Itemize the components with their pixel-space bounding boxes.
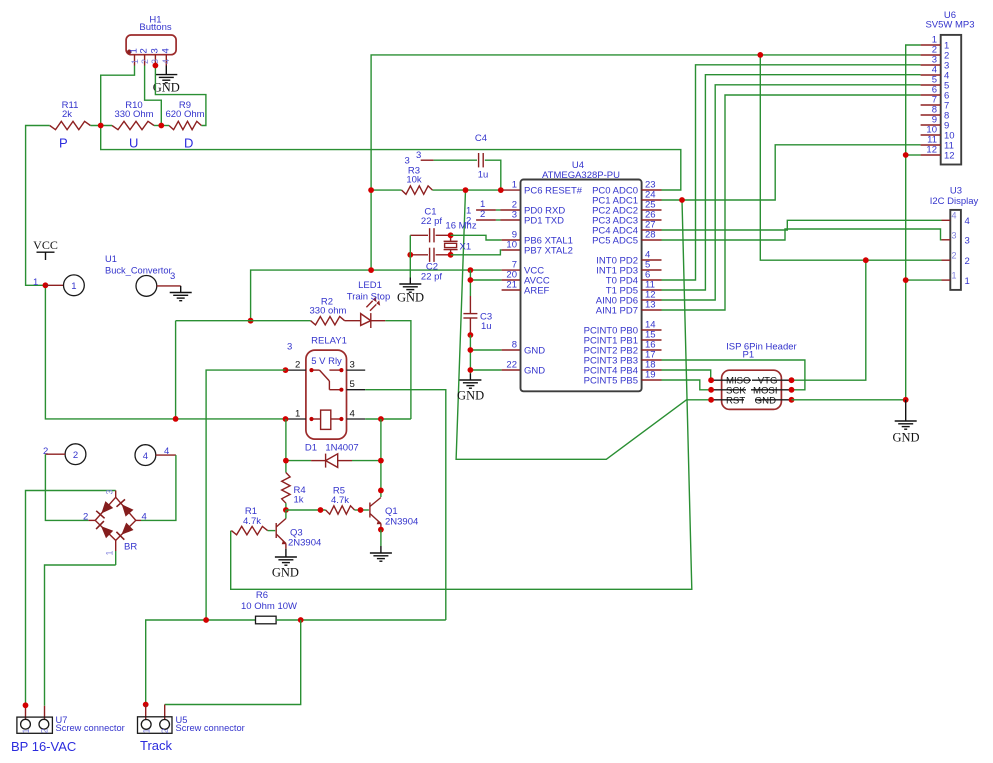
node U7 pin1 top <box>23 702 29 708</box>
node R11/R10 junction <box>98 123 104 129</box>
svg-text:Q1: Q1 <box>385 506 398 517</box>
wire C4 right down to pin1 line <box>485 160 501 190</box>
svg-text:RELAY1: RELAY1 <box>311 336 347 347</box>
U4 pin1 stub <box>501 189 521 191</box>
node top rail/x760.3 <box>757 52 763 58</box>
wire relay pin2 to R6 line <box>206 370 285 620</box>
svg-text:VCC: VCC <box>33 238 58 252</box>
wire C1/C2 ground leg <box>409 235 411 277</box>
svg-text:LED1: LED1 <box>358 280 382 291</box>
wire ISP GND to ground rail <box>792 399 906 401</box>
svg-text:1N4007: 1N4007 <box>325 443 358 454</box>
svg-text:8: 8 <box>512 340 517 351</box>
svg-text:BR: BR <box>124 542 137 553</box>
transistor Q1 2N3904 <box>370 498 418 530</box>
wire R6 line left to U5 pin1 <box>146 620 256 705</box>
wire pin27 to U3 pin4 <box>662 220 942 230</box>
svg-text:U3: U3 <box>950 186 962 197</box>
node pin20/AVCC <box>468 277 474 283</box>
svg-text:Track: Track <box>140 738 173 753</box>
wire relay pin5 to R6 right end <box>365 390 446 620</box>
svg-text:1: 1 <box>71 281 76 292</box>
svg-text:4.7k: 4.7k <box>331 495 349 506</box>
svg-text:PC6 RESET#: PC6 RESET# <box>524 185 583 196</box>
svg-text:1: 1 <box>21 728 31 733</box>
wire P button: H1 pin1 to R11/R10 junction, down and long run to U4 pin23 <box>101 66 681 191</box>
svg-text:330 Ohm: 330 Ohm <box>114 109 153 120</box>
LED LED1 Train Stop <box>345 280 391 328</box>
svg-text:Screw connector: Screw connector <box>176 723 245 733</box>
svg-text:2: 2 <box>83 512 88 523</box>
wire R3 left to VCC vertical <box>371 189 402 191</box>
svg-text:X1: X1 <box>460 242 472 253</box>
diode bottom-right (points to bottom corner) <box>121 523 133 535</box>
U3 inside pale numbers <box>952 211 957 281</box>
net stub 1 to U4 pin2 RXD <box>466 199 521 217</box>
svg-text:1: 1 <box>105 550 115 555</box>
wire pin24 PC1 to U6 pin11 <box>662 145 921 200</box>
wire pin18 MISO to ISP <box>662 370 711 380</box>
node D1 anode <box>283 458 289 464</box>
svg-text:4: 4 <box>952 211 957 221</box>
node ISP MISO <box>708 377 714 383</box>
svg-text:330 ohm: 330 ohm <box>310 306 347 317</box>
capacitor C2 22pf <box>410 248 450 283</box>
wire pin6 T0 to U6 pin3 <box>662 65 921 280</box>
node XTAL1/C1 <box>448 232 454 238</box>
svg-text:2: 2 <box>952 251 957 261</box>
wire resistor row joins <box>90 125 112 127</box>
node U3pin2row/x865.8 <box>863 257 869 263</box>
wire track to U5 pin2 <box>165 620 301 705</box>
node relay pin4/D1 <box>378 416 384 422</box>
svg-text:2: 2 <box>139 48 150 53</box>
svg-text:D: D <box>184 136 193 151</box>
node D1 cathode <box>378 458 384 464</box>
wire U3 pin1 to gnd rail <box>906 279 942 281</box>
node R5 right <box>358 507 364 513</box>
svg-text:2N3904: 2N3904 <box>288 538 321 549</box>
svg-text:GND: GND <box>397 291 424 305</box>
svg-text:3: 3 <box>287 342 292 353</box>
svg-text:AIN1 PD7: AIN1 PD7 <box>596 305 638 316</box>
svg-text:P: P <box>59 136 68 151</box>
wire VTG branch down x865.8 to ISP VTG <box>792 260 866 380</box>
node ISP MOSI <box>789 387 795 393</box>
svg-text:GND: GND <box>272 566 299 580</box>
wire XTAL1 to U4 pin9 <box>451 235 502 240</box>
U4 right pin stubs <box>642 190 662 380</box>
node R6 line/relay pin2 drop <box>203 617 209 623</box>
svg-text:4: 4 <box>143 451 148 462</box>
U4 pin9 stub <box>502 239 521 241</box>
svg-text:1: 1 <box>33 277 38 288</box>
wire Q3 collector up to node <box>285 510 287 519</box>
svg-text:3: 3 <box>952 231 957 241</box>
svg-text:R6: R6 <box>256 590 268 601</box>
wire pin12 AIN0 to U6 pin5 <box>662 85 921 300</box>
svg-text:19: 19 <box>645 370 656 381</box>
svg-text:BP 16-VAC: BP 16-VAC <box>11 739 76 754</box>
wire VCC branch at x250.6 up to VCC row y270 <box>251 270 471 321</box>
wire relay pin1 down to D1 <box>285 419 287 473</box>
diode D1 1N4007 <box>286 443 381 468</box>
op-amp U4 body <box>521 160 642 391</box>
wire LED cathode down to relay pin4 line <box>385 321 411 419</box>
node ISP GND <box>789 397 795 403</box>
node pin24 slant junction <box>679 197 685 203</box>
node R10/R9 junction <box>158 123 164 129</box>
svg-text:3: 3 <box>170 271 175 282</box>
svg-text:1k: 1k <box>294 495 304 506</box>
capacitor C1 22pf <box>410 207 450 243</box>
svg-text:ATMEGA328P-PU: ATMEGA328P-PU <box>542 170 620 181</box>
svg-text:PD1 TXD: PD1 TXD <box>524 215 564 226</box>
resistor R6 10 Ohm 10W <box>241 590 297 624</box>
wire R6 right to relay pin5 drop <box>276 619 446 621</box>
screw connector U7 BP 16-VAC <box>11 705 125 754</box>
U4 left pin numbers <box>506 180 517 371</box>
wire VCC branch down x760.3 to U3 pin2 row <box>760 55 941 260</box>
svg-text:2k: 2k <box>62 109 72 120</box>
U3 outside numbers <box>965 216 970 287</box>
svg-text:2: 2 <box>160 728 170 733</box>
wire R1 right to Q3 base <box>268 530 276 532</box>
svg-text:12: 12 <box>944 151 955 162</box>
node relay pin2 <box>283 367 289 373</box>
svg-text:2N3904: 2N3904 <box>385 517 418 528</box>
node C2 left / gnd leg <box>407 252 413 258</box>
relay pin5 line <box>347 389 366 391</box>
node C3 bottom <box>468 332 474 338</box>
relay pin4 line <box>347 418 366 420</box>
wire U button: H1 pin2 to R10/R9 junction <box>145 66 162 126</box>
resistor R4 1k (vertical) <box>282 473 306 506</box>
wire slant PC1 down to R1 base line <box>231 200 692 589</box>
svg-text:I2C Display: I2C Display <box>930 196 979 207</box>
H1 pin 1 stub <box>134 55 136 66</box>
node gnd rail/ISP <box>903 397 909 403</box>
relay switch blade and contacts <box>309 368 343 392</box>
ground under H1 pin 4 <box>153 66 180 95</box>
wire D button: H1 pin3 to R9 right <box>155 66 206 126</box>
node pin22 <box>468 367 474 373</box>
wire pin13 AIN1 to U6 pin6 <box>662 95 921 310</box>
svg-text:Buck_Convertor: Buck_Convertor <box>105 266 172 276</box>
svg-text:12: 12 <box>926 145 937 156</box>
wire AVCC branch down <box>469 270 471 296</box>
svg-text:GND: GND <box>524 345 545 356</box>
svg-text:3: 3 <box>416 150 421 161</box>
svg-text:3: 3 <box>350 360 355 371</box>
svg-text:1: 1 <box>130 59 140 64</box>
node R4/Q3 collector/R5 <box>283 507 289 513</box>
node U3 pin1 junction <box>903 277 909 283</box>
relay pin2 line <box>286 369 306 371</box>
wire RST slant down to ISP <box>456 190 711 459</box>
wire pin28 to U3 pin3 <box>662 229 942 240</box>
node R5 left <box>318 507 324 513</box>
svg-text:1u: 1u <box>478 170 489 181</box>
screw connector U5 Track <box>138 705 245 754</box>
svg-text:2: 2 <box>480 209 485 220</box>
node ISP VTG <box>789 377 795 383</box>
svg-text:GND: GND <box>457 389 484 403</box>
svg-text:22 pf: 22 pf <box>421 272 442 283</box>
U1 pin4 circle <box>135 445 176 466</box>
diode top-left (points to left corner) <box>101 501 113 513</box>
node U6 pin12 junction <box>903 152 909 158</box>
svg-text:10k: 10k <box>406 175 422 186</box>
H1 pin 2 stub <box>144 55 146 66</box>
node C4/pin1 line <box>498 187 504 193</box>
U4 pin20 stub AVCC <box>470 279 501 281</box>
svg-text:GND: GND <box>892 431 919 445</box>
wire U6 pin1 to gnd rail <box>906 45 921 400</box>
wire gnd leg pin8/pin22 <box>469 335 471 374</box>
U4 pin10 stub <box>502 249 521 251</box>
wire RESET net R3 right to U4 pin1 <box>433 189 502 191</box>
relay pin3 line <box>347 369 366 371</box>
svg-text:5: 5 <box>350 379 355 390</box>
svg-text:4: 4 <box>161 59 171 64</box>
wire R4 bottom to node <box>285 503 287 510</box>
svg-text:Screw connector: Screw connector <box>56 723 125 733</box>
svg-text:C4: C4 <box>475 133 487 144</box>
wire BR pin1 to U7 pin2 <box>45 565 116 706</box>
node RST slant/pin1 line <box>463 187 469 193</box>
svg-text:10 Ohm 10W: 10 Ohm 10W <box>241 601 297 612</box>
U6 pin stubs 1-12 <box>921 45 941 155</box>
resistor R10 330 Ohm <box>112 100 154 130</box>
svg-text:2: 2 <box>140 59 150 64</box>
svg-text:13: 13 <box>645 300 656 311</box>
resistor R1 4.7k <box>231 506 267 535</box>
svg-text:22 pf: 22 pf <box>421 216 442 227</box>
svg-text:28: 28 <box>645 230 656 241</box>
svg-text:2: 2 <box>73 450 78 461</box>
relay coil <box>309 410 343 429</box>
wire VCC branch up at x175.6 to R2 line <box>175 321 177 419</box>
svg-text:U: U <box>129 136 138 151</box>
transistor Q3 2N3904 <box>276 519 321 549</box>
svg-text:2: 2 <box>965 256 970 267</box>
U4 pin22 stub GND <box>470 369 501 371</box>
U1 pin1 circle <box>33 275 84 296</box>
U4 left pin names <box>524 185 583 376</box>
U4 right pin names <box>584 185 638 386</box>
svg-text:GND: GND <box>755 395 776 406</box>
node relay pin1/VCC <box>283 416 289 422</box>
svg-text:3: 3 <box>512 210 517 221</box>
U6 inside pin names <box>944 41 955 162</box>
svg-text:4: 4 <box>142 512 147 523</box>
node R6 right/track drop <box>298 617 304 623</box>
svg-text:P1: P1 <box>742 350 754 361</box>
svg-text:4.7k: 4.7k <box>243 516 261 527</box>
svg-text:1: 1 <box>965 276 970 287</box>
node R2line/x250.6 <box>248 318 254 324</box>
ground under Q3 <box>272 549 299 580</box>
wire R11 left to VCC rail <box>26 126 50 286</box>
svg-text:1: 1 <box>512 180 517 191</box>
svg-text:3: 3 <box>149 48 160 53</box>
svg-text:4: 4 <box>965 216 970 227</box>
crystal X1 16 Mhz <box>444 221 477 255</box>
resistor R11 2k <box>50 100 91 130</box>
svg-text:5 V Rly: 5 V Rly <box>311 356 342 367</box>
capacitor C3 1u <box>463 296 492 335</box>
resistor R9 620 Ohm <box>165 100 204 130</box>
node U5 pin1 top <box>143 702 149 708</box>
relay pin1 line <box>286 418 306 420</box>
svg-text:PCINT5 PB5: PCINT5 PB5 <box>584 375 638 386</box>
resistor R5 4.7k <box>326 486 355 515</box>
svg-text:GND: GND <box>524 365 545 376</box>
svg-text:D1: D1 <box>305 443 317 454</box>
node Q1 emitter <box>378 527 384 533</box>
resistor R3 10k <box>402 166 433 195</box>
wire U1 pin2 down to BR pin2 <box>45 454 88 520</box>
net stub 2 to U4 pin3 TXD <box>466 209 521 227</box>
U4 pin8 stub GND <box>470 349 501 351</box>
bridge rectifier BR <box>83 489 147 565</box>
wire pin11 T1 to U6 pin4 <box>662 75 921 290</box>
svg-text:PB7 XTAL2: PB7 XTAL2 <box>524 245 573 256</box>
wire BR pin4 up to U1 pin4 <box>141 455 176 520</box>
node Q1 collector <box>378 488 384 494</box>
U1 pin3 circle with ground <box>136 271 192 301</box>
svg-text:Buttons: Buttons <box>139 22 171 33</box>
svg-text:1: 1 <box>295 409 300 420</box>
capacitor C4 1u <box>475 133 488 181</box>
node VCC y419/x175.6 <box>173 416 179 422</box>
H1 pale pin name numbers <box>130 59 171 64</box>
svg-text:4: 4 <box>350 409 356 420</box>
svg-text:Train Stop: Train Stop <box>347 292 390 303</box>
U3 pin stubs <box>942 220 951 280</box>
svg-text:21: 21 <box>506 280 517 291</box>
wire R5 right to Q1 base <box>355 509 369 511</box>
wire BR pin3 to U7 pin1 <box>26 491 116 706</box>
net stub 3 at C4 <box>405 150 434 167</box>
svg-text:1: 1 <box>142 728 152 733</box>
svg-text:10: 10 <box>506 240 517 251</box>
wire R5 line from node <box>286 509 326 511</box>
U4 pin7 stub VCC <box>470 269 501 271</box>
node ISP RST <box>708 397 714 403</box>
wire pin19 SCK to ISP <box>662 380 712 390</box>
svg-text:3: 3 <box>105 489 115 494</box>
node pin8 <box>468 347 474 353</box>
svg-text:2: 2 <box>295 360 300 371</box>
svg-text:1: 1 <box>952 271 957 281</box>
wire XTAL2 to U4 pin10 <box>451 250 502 255</box>
ground under C3 <box>457 374 484 403</box>
svg-text:SV5W MP3: SV5W MP3 <box>925 20 974 31</box>
ISP pin lines and names <box>711 376 791 407</box>
U4 right pin numbers <box>645 180 656 381</box>
svg-text:U1: U1 <box>105 254 117 264</box>
resistor R2 330 ohm <box>310 297 347 325</box>
ground at ISP rail <box>892 400 919 445</box>
svg-text:3: 3 <box>965 236 970 247</box>
U1 pin2 circle <box>43 444 86 465</box>
wire VCC rail: U1 pin1 down, along y419, to relay pin1 <box>45 285 285 419</box>
wire R2 line left segment <box>176 320 311 322</box>
H1 pin 4 stub <box>165 55 167 66</box>
diode top-right (points to top corner) <box>122 504 134 516</box>
node R3/VCC vertical <box>368 187 374 193</box>
U6 outside pin numbers <box>926 35 937 156</box>
wire relay pin4 to LED drop <box>365 418 411 420</box>
svg-text:22: 22 <box>506 360 517 371</box>
svg-text:AREF: AREF <box>524 285 550 296</box>
svg-text:4: 4 <box>160 48 171 53</box>
node H1 pin3 junction <box>153 63 159 69</box>
header H1 Buttons <box>126 15 176 55</box>
wire VCC branch up x371.1 to top rail y54.9 to U6 pin2 <box>371 55 921 270</box>
svg-text:PC5 ADC5: PC5 ADC5 <box>592 235 638 246</box>
svg-text:3: 3 <box>405 156 410 167</box>
wire pin17 MOSI to ISP <box>662 360 805 390</box>
node VCC/U1 pin1 <box>43 282 49 288</box>
svg-text:2: 2 <box>39 728 49 733</box>
H1 pin 3 stub <box>154 55 156 66</box>
diode bottom-left (points to left corner) <box>101 526 113 538</box>
svg-text:1u: 1u <box>481 321 492 332</box>
svg-text:620 Ohm: 620 Ohm <box>165 109 204 120</box>
svg-text:16 Mhz: 16 Mhz <box>445 221 476 232</box>
node XTAL2/C2 <box>448 252 454 258</box>
VCC power symbol <box>33 238 58 260</box>
ground under C1/C2 <box>397 278 424 305</box>
wire relay pin4 down to Q1 collector <box>380 419 382 497</box>
svg-text:GND: GND <box>153 81 180 95</box>
wire net3 to C4 <box>434 159 477 161</box>
svg-text:ISP 6Pin Header: ISP 6Pin Header <box>726 342 797 353</box>
node ISP SCK <box>708 387 714 393</box>
ground under Q1 <box>370 546 392 561</box>
wire Q1 emitter down <box>380 530 382 546</box>
node pin7/VCC <box>468 267 474 273</box>
svg-text:RST: RST <box>726 395 745 406</box>
wire U6 pin12 to gnd rail <box>906 154 921 156</box>
node VCC row/x371.1 <box>368 267 374 273</box>
svg-text:2: 2 <box>466 216 471 227</box>
U4 pin21 AREF stub <box>502 289 521 291</box>
